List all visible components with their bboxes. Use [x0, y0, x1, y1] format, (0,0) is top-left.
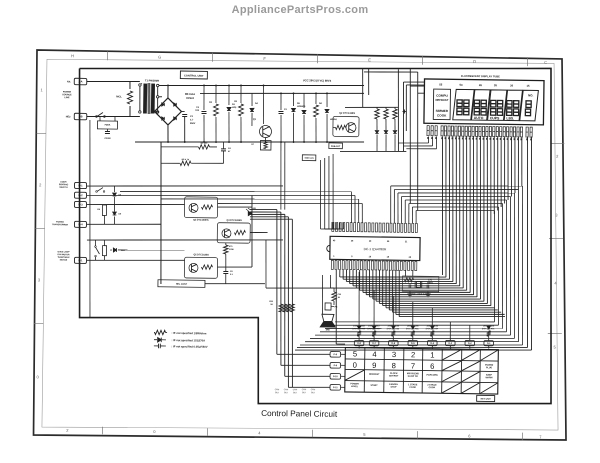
diode D6 [303, 93, 305, 108]
svg-text:R08: R08 [361, 328, 364, 330]
svg-text:R05: R05 [415, 328, 418, 330]
svg-text:C3: C3 [284, 109, 288, 111]
svg-text:45: 45 [479, 83, 483, 87]
connector D-2 door sw [74, 192, 86, 198]
svg-text:DC-1 IZA4780R: DC-1 IZA4780R [364, 247, 387, 251]
keyboard column diodes and resistors [358, 336, 360, 340]
display digit cell 3 [488, 90, 507, 121]
svg-text:10: 10 [369, 256, 372, 258]
diode D9 [113, 212, 117, 215]
svg-text:1: 1 [333, 256, 335, 258]
svg-text:FAN MOTOR: FAN MOTOR [57, 253, 70, 256]
svg-text:COMPU: COMPU [436, 94, 448, 98]
watermark title [0, 4, 600, 16]
node plus supply [403, 109, 405, 113]
svg-text:GRN: GRN [293, 389, 298, 391]
svg-text:SLOW CK: SLOW CK [408, 376, 419, 378]
resistor R5 [198, 145, 209, 150]
svg-text:POWER: POWER [63, 91, 72, 93]
display digit cell 1 [453, 89, 474, 120]
varistor MCL [129, 82, 131, 90]
svg-text:VCC 29V3 (8 VC) 89V4: VCC 29V3 (8 VC) 89V4 [303, 78, 332, 82]
svg-text:Q4 DTC143ES: Q4 DTC143ES [226, 219, 242, 222]
wire ground rail [266, 286, 430, 291]
svg-text:15: 15 [527, 84, 531, 88]
svg-text:4: 4 [258, 430, 261, 435]
svg-text:WARM: WARM [485, 376, 492, 379]
svg-text:4: 4 [554, 281, 557, 286]
IC U1 top pins [332, 222, 334, 231]
svg-text:BLK: BLK [293, 392, 297, 394]
connector P-1 oven loads [74, 257, 86, 263]
wire bridge bottom [167, 125, 170, 142]
svg-text:DEFROST: DEFROST [369, 374, 380, 376]
svg-text:DEFROST: DEFROST [435, 98, 448, 102]
svg-text:6: 6 [468, 433, 471, 438]
module TMR box [302, 155, 316, 161]
svg-text:270A: 270A [426, 327, 431, 330]
zener D7 [326, 93, 328, 107]
svg-text:R3: R3 [234, 101, 238, 103]
svg-text:G: G [158, 54, 161, 59]
resistor R3 [240, 85, 242, 103]
svg-text:COOK: COOK [409, 387, 416, 389]
svg-text:270A: 270A [387, 327, 392, 330]
svg-text:: IF not specified 1SS270A: : IF not specified 1SS270A [171, 338, 205, 342]
svg-text:Q1: Q1 [253, 119, 257, 121]
svg-text:SOURCE: SOURCE [62, 94, 72, 96]
svg-text:6: 6 [430, 362, 434, 371]
connector D-4 transformer [74, 221, 86, 227]
svg-text:TMR 0.1S: TMR 0.1S [304, 158, 314, 160]
svg-text:: IF not specified 0.05uF/50V: : IF not specified 0.05uF/50V [171, 344, 207, 349]
wire Q2 feeds [362, 68, 363, 107]
wire bus IC grid risers right [390, 186, 391, 223]
svg-text:BLK: BLK [302, 392, 306, 394]
svg-text:LBS.: LBS. [506, 116, 514, 120]
svg-text:20: 20 [409, 257, 412, 259]
wire IC pin1 long drop [335, 270, 337, 344]
svg-text:HZS: HZS [232, 107, 237, 109]
svg-text:PB: PB [335, 306, 338, 308]
wire IC bottom staircase to display [339, 270, 341, 277]
transformer T1 core [147, 83, 150, 114]
svg-text:0: 0 [153, 429, 156, 434]
svg-text:D-2: D-2 [78, 193, 83, 197]
svg-text:HZS24: HZS24 [186, 97, 194, 100]
wire primary bottom [87, 116, 140, 118]
svg-text:KEY UNIT: KEY UNIT [481, 399, 492, 401]
resistor R32 row [283, 304, 287, 312]
svg-text:1: 1 [40, 87, 43, 92]
svg-text:FDB-1DT: FDB-1DT [331, 146, 341, 148]
svg-text:0: 0 [353, 361, 357, 370]
svg-text:C: C [544, 60, 547, 65]
sheet zone ticks left [37, 132, 46, 134]
junction dots power rails [167, 85, 169, 87]
capacitor C3 [280, 93, 282, 110]
switch SW3 [95, 247, 99, 254]
resistor R8 [102, 246, 106, 256]
svg-text:NE2: NE2 [66, 115, 71, 118]
svg-text:2: 2 [66, 428, 69, 433]
svg-text:D01: D01 [491, 325, 494, 327]
svg-text:25: 25 [387, 241, 390, 243]
resistor R34 row [290, 304, 294, 312]
connector J-A power line [74, 78, 87, 85]
svg-text:270A: 270A [482, 327, 487, 330]
svg-text:E: E [368, 57, 371, 62]
diode D12 [384, 131, 388, 134]
transformer T1 primary winding [139, 84, 141, 86]
svg-text:D3: D3 [232, 104, 236, 106]
wire primary top [87, 81, 140, 83]
svg-text:SET/RST: SET/RST [389, 375, 399, 377]
svg-text:4: 4 [372, 350, 376, 359]
wire left inner drop [87, 120, 93, 318]
svg-text:CONTROL UNIT: CONTROL UNIT [184, 73, 204, 77]
svg-text:250V: 250V [190, 123, 196, 125]
svg-text:BLK: BLK [284, 392, 288, 394]
svg-text:D-3: D-3 [78, 202, 83, 206]
svg-text:BLK: BLK [311, 392, 315, 394]
svg-text:2: 2 [39, 182, 42, 187]
svg-text:P-11: P-11 [333, 387, 338, 389]
resistor R13 display driver [394, 107, 396, 109]
resistor R6 [102, 205, 106, 216]
svg-text:D07: D07 [376, 325, 379, 327]
svg-text:START: START [370, 384, 378, 387]
svg-text:Q5 DTC143ES: Q5 DTC143ES [193, 253, 209, 256]
svg-text:C5: C5 [230, 271, 233, 273]
switch SW2 [97, 187, 103, 191]
svg-text:PLUG: PLUG [486, 367, 492, 369]
svg-text:270A: 270A [352, 327, 357, 330]
svg-text:LED: LED [252, 208, 257, 210]
svg-text:F2BA: F2BA [105, 123, 111, 126]
svg-text:7: 7 [539, 434, 542, 439]
svg-text:P-8: P-8 [334, 354, 338, 356]
wire row bus risers to rail [280, 142, 282, 210]
svg-text:2: 2 [411, 350, 415, 359]
svg-text:P-9: P-9 [334, 365, 338, 367]
svg-text:55: 55 [439, 83, 443, 87]
wire display top feeds [408, 69, 412, 204]
svg-text:4MHz: 4MHz [427, 281, 434, 284]
wire buzzer feed [322, 275, 323, 314]
svg-text:2: 2 [556, 154, 559, 159]
svg-text:HZS16: HZS16 [330, 119, 338, 121]
svg-text:MW: MW [326, 329, 331, 331]
svg-text:R8 4.7K: R8 4.7K [182, 158, 190, 161]
zener D3 [228, 85, 230, 105]
transistor module Q4 DTC143ES [217, 223, 250, 244]
keyboard column connectors [354, 340, 364, 345]
sheet outer border [32, 50, 572, 442]
wire display anode feed [397, 69, 399, 151]
display annunciator cell [433, 89, 450, 120]
wire mid rail [200, 91, 364, 96]
svg-text:5: 5 [351, 256, 353, 258]
wire IC top left feeds [320, 160, 322, 229]
resistor R12 display driver [385, 107, 387, 109]
buzzer drive PB [325, 303, 331, 310]
svg-text:15: 15 [387, 257, 390, 259]
key unit box [477, 395, 495, 401]
svg-text:D: D [473, 59, 476, 64]
legend resistor note [155, 330, 166, 335]
wire relay outputs [217, 206, 252, 209]
diode D14 [113, 248, 116, 252]
svg-text:Q3 DTC143ES: Q3 DTC143ES [193, 219, 209, 222]
svg-text:GRN: GRN [311, 389, 316, 391]
svg-text:F: F [263, 56, 266, 61]
svg-text:RB 151A: RB 151A [185, 93, 196, 96]
svg-text:C2: C2 [196, 107, 200, 109]
buzzer BZ1 [322, 314, 334, 321]
svg-text:D-2: D-2 [468, 343, 472, 345]
svg-text:20: 20 [510, 84, 514, 88]
transistor module Q2 DTC143ES [333, 116, 359, 136]
display digit cell 2 [471, 90, 490, 121]
wire P-1 line [87, 237, 283, 243]
svg-text:LEVEL: LEVEL [351, 386, 359, 388]
wire filament pin routing [427, 136, 429, 143]
svg-text:NA: NA [67, 80, 71, 83]
control unit title box [180, 71, 207, 79]
legend diode note [158, 338, 162, 343]
svg-text:D5: D5 [297, 103, 301, 105]
svg-text:D-5: D-5 [411, 343, 415, 345]
svg-text:C1: C1 [190, 116, 194, 118]
lower section box [158, 280, 205, 288]
wire key row bus [250, 208, 277, 211]
svg-text:NO.: NO. [528, 93, 534, 97]
svg-text:7: 7 [411, 361, 415, 370]
svg-text:270A: 270A [367, 327, 372, 330]
wire bus display segments down [441, 136, 445, 275]
svg-text:TRANSFORMER: TRANSFORMER [52, 223, 69, 226]
svg-text:CUPS: CUPS [490, 116, 500, 120]
capacitor C4 [221, 148, 226, 150]
wire VCC rail [135, 139, 364, 145]
transistor module Q3 DTC143ES [184, 197, 217, 218]
svg-text:COOK: COOK [437, 114, 447, 118]
svg-text:9: 9 [372, 361, 376, 370]
svg-text:CF2M: CF2M [104, 138, 110, 140]
wire filament bus [345, 107, 398, 109]
sheet zone ticks top [107, 51, 109, 60]
wire relay lines to IC [120, 188, 351, 194]
svg-text:P-10: P-10 [333, 376, 338, 378]
svg-text:SIMMER: SIMMER [436, 109, 449, 113]
wire door sense lines [87, 183, 283, 189]
wire secondary to bridge [159, 83, 364, 89]
svg-text:D-1: D-1 [78, 183, 83, 187]
wire IC to oscillator [404, 270, 406, 276]
sheet zone ticks right [550, 142, 564, 144]
svg-text:R07: R07 [376, 328, 379, 330]
svg-text:GRN: GRN [284, 389, 289, 391]
svg-text:J-B: J-B [78, 114, 82, 118]
svg-text:T1 PW280R: T1 PW280R [145, 78, 159, 82]
svg-text:H: H [71, 53, 74, 58]
svg-text:D-4: D-4 [78, 222, 83, 226]
connector J-B power line [74, 113, 87, 120]
svg-text:GRN: GRN [302, 389, 307, 391]
diode D8 [113, 193, 117, 196]
svg-text:35: 35 [494, 83, 498, 87]
keyboard row connectors [330, 352, 341, 358]
svg-text:COOK: COOK [429, 387, 436, 389]
display pin labels [427, 137, 429, 139]
svg-text:SWITCH: SWITCH [59, 187, 68, 189]
svg-text:0: 0 [36, 374, 39, 379]
svg-text:R2: R2 [209, 102, 213, 104]
svg-text:0.1: 0.1 [230, 274, 234, 276]
resistor R4 [315, 93, 317, 104]
diode D4 [251, 93, 253, 106]
wire filament lower bus [340, 151, 406, 153]
capacitor C2 [203, 85, 206, 110]
svg-text:R5 100: R5 100 [201, 143, 209, 145]
svg-text:STOP: STOP [391, 387, 397, 389]
connector D-3 door sw [74, 201, 86, 207]
svg-text:D-4: D-4 [431, 342, 435, 345]
capacitor C5 [223, 270, 228, 272]
keyboard matrix KEY1 [345, 348, 499, 395]
svg-text:3: 3 [392, 350, 396, 359]
legend capacitor note [157, 344, 159, 349]
svg-text:47: 47 [228, 150, 231, 153]
resistor R11 display driver [376, 107, 378, 109]
svg-text:D14: D14 [121, 249, 126, 252]
svg-text:4.7: 4.7 [190, 118, 194, 121]
zener D5 [292, 93, 294, 106]
svg-text:REL CONT: REL CONT [176, 284, 188, 286]
svg-text:Control Panel Circuit: Control Panel Circuit [261, 408, 338, 419]
svg-text:270A: 270A [406, 327, 411, 330]
capacitor C1 smoothing [181, 110, 184, 112]
svg-text:D05: D05 [415, 326, 418, 328]
svg-text:P-1: P-1 [78, 258, 83, 262]
transistor module Q5 DTC143ES [184, 257, 217, 278]
svg-text:FLUORESCENT DISPLAY TUBE: FLUORESCENT DISPLAY TUBE [461, 74, 500, 79]
sheet zone ticks bottom [101, 427, 103, 434]
resistor R2 [215, 86, 217, 104]
svg-text:8: 8 [392, 361, 396, 370]
svg-text:HZS9C1: HZS9C1 [297, 106, 306, 108]
svg-text:LINE: LINE [64, 97, 70, 99]
svg-text:R31: R31 [269, 301, 274, 303]
svg-text:1: 1 [430, 351, 434, 360]
svg-text:R7: R7 [251, 144, 255, 146]
key blank slashes [443, 349, 462, 360]
svg-text:J-A: J-A [78, 79, 82, 83]
wire transformer relay line [87, 223, 161, 225]
svg-text:35: 35 [351, 241, 354, 243]
svg-text:1K: 1K [270, 304, 273, 306]
svg-text:AUTO: AUTO [474, 116, 484, 120]
svg-text:5: 5 [353, 349, 357, 358]
svg-text:D08: D08 [361, 325, 364, 327]
transformer T1 secondary winding [151, 84, 154, 113]
fuse-switch SW1 [97, 112, 103, 116]
svg-text:C4: C4 [228, 147, 232, 150]
svg-text:5: 5 [553, 345, 556, 350]
svg-text:21: 21 [405, 241, 408, 243]
svg-text:5: 5 [363, 432, 366, 437]
svg-text:MCL: MCL [116, 94, 122, 98]
IC U1 DC-1 IZA4780R [330, 236, 420, 260]
display pin header [427, 126, 429, 136]
svg-text:SX1 HWP 02M: SX1 HWP 02M [412, 294, 427, 296]
svg-text:MOTOR: MOTOR [60, 260, 68, 262]
svg-text:1/2W: 1/2W [229, 249, 234, 251]
resistor box RB1 [260, 140, 271, 150]
wire bus display right pins down [525, 136, 531, 347]
connector D-1 door sw [74, 182, 86, 188]
display digit cell 5 [520, 90, 539, 121]
resistor R21 buzzer [332, 292, 337, 301]
interlock box [97, 121, 117, 129]
transistor Q1 [263, 85, 264, 124]
svg-text:54: 54 [460, 83, 464, 87]
diode D13 [393, 130, 397, 133]
oscillator CX1 4MHz [402, 276, 439, 292]
svg-text:30: 30 [369, 241, 372, 243]
resistor R8b [180, 161, 191, 166]
module FDB-1DT box [329, 143, 343, 149]
IC U1 bottom pins [331, 260, 333, 269]
display digit cell 4 [504, 90, 522, 121]
svg-text:D9: D9 [118, 213, 121, 215]
svg-text:100: 100 [195, 110, 199, 112]
svg-text:R06: R06 [396, 328, 399, 330]
svg-text:: IF not specified 1/8W/ohm: : IF not specified 1/8W/ohm [172, 331, 207, 335]
svg-text:BLK: BLK [275, 392, 279, 394]
svg-text:470: 470 [229, 245, 233, 248]
svg-text:D06: D06 [395, 326, 398, 328]
diode D11 [375, 131, 379, 134]
wire plain column risers [449, 322, 451, 341]
svg-text:R4: R4 [319, 102, 323, 105]
sheet inner border [42, 56, 563, 434]
svg-text:1K: 1K [337, 297, 340, 299]
bridge rectifier D1 [154, 98, 181, 125]
resistor R7 [225, 243, 227, 245]
svg-text:OVEN LAMP: OVEN LAMP [58, 250, 71, 253]
svg-text:R01: R01 [491, 328, 494, 330]
ground oscillator [409, 291, 411, 294]
svg-text:POPCORN: POPCORN [427, 375, 439, 377]
svg-text:Q2 DTC143ES: Q2 DTC143ES [339, 112, 355, 115]
svg-text:R6: R6 [97, 209, 100, 211]
resistor R31 row [279, 304, 283, 312]
svg-text:3: 3 [38, 277, 41, 282]
circuit board outline [75, 62, 556, 408]
svg-text:D4: D4 [255, 102, 259, 105]
svg-text:CW: CW [337, 294, 341, 296]
svg-text:3: 3 [555, 213, 558, 218]
svg-text:TURNTABLE: TURNTABLE [57, 256, 70, 259]
svg-text:40: 40 [333, 239, 336, 242]
svg-text:GRN: GRN [275, 389, 280, 391]
capacitor CF line filter [105, 130, 110, 132]
resistor R33 row [286, 304, 290, 312]
LED D10 [248, 211, 252, 215]
